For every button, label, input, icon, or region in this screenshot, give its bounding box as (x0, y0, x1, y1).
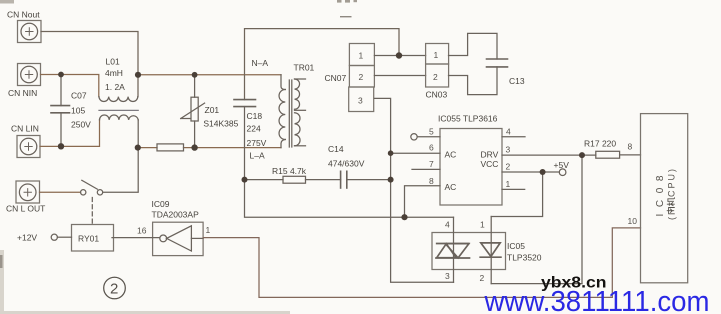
photodiode LED symbol (480, 243, 501, 257)
svg-text:AC: AC (445, 182, 457, 192)
pin 8 wire down-left (405, 186, 441, 218)
svg-text:3: 3 (358, 96, 363, 106)
wire CN L OUT to switch (40, 191, 81, 193)
scan artifact top-left (0, 0, 14, 4)
inverter IC09 TDA2003AP (112, 222, 203, 255)
svg-text:6: 6 (429, 143, 434, 153)
svg-text:4: 4 (445, 220, 450, 230)
triac symbol (436, 244, 470, 259)
dashed link switch to RY01 (91, 198, 93, 225)
pin 4 stub (502, 136, 525, 138)
svg-text:+5V: +5V (554, 160, 570, 170)
wire CN07 pin2 to CN03 (374, 75, 425, 77)
pin 6 wire (391, 152, 440, 154)
wire CN07 pin3 down (374, 98, 453, 282)
capacitor C18 with rail to CN07 (234, 29, 399, 180)
scan artifact small dash (340, 16, 352, 17)
svg-text:AC: AC (445, 150, 457, 160)
svg-text:5: 5 (429, 127, 434, 137)
varistor Z01 (181, 75, 205, 148)
scan artifact bottom edge (0, 311, 290, 314)
svg-text:Z01: Z01 (205, 105, 220, 115)
svg-text:C13: C13 (509, 76, 525, 86)
capacitor C07 (51, 75, 70, 147)
connector CN07 (349, 44, 375, 112)
inductor L01 common-mode choke (99, 97, 138, 120)
resistor R15 (245, 176, 341, 183)
svg-text:IC055 TLP3616: IC055 TLP3616 (438, 114, 498, 124)
svg-text:TLP3520: TLP3520 (507, 253, 542, 263)
svg-text:+12V: +12V (17, 233, 37, 243)
svg-text:CN07: CN07 (325, 73, 347, 83)
svg-text:8: 8 (628, 142, 633, 152)
opto triac IC05 TLP3520 (432, 217, 506, 284)
wire CN NIN to L01 (41, 75, 99, 97)
svg-text:C14: C14 (328, 144, 344, 154)
svg-text:1: 1 (206, 225, 211, 235)
svg-text:1: 1 (434, 50, 439, 60)
svg-text:4: 4 (506, 127, 511, 137)
svg-text:250V: 250V (71, 120, 91, 130)
wire +5V node to IC05 pin1 (491, 172, 542, 217)
svg-text:2: 2 (480, 273, 485, 283)
terminal +12V (51, 234, 71, 240)
wire pin8 row to C18 lead (245, 180, 454, 218)
svg-text:L01: L01 (106, 57, 120, 67)
resistor R14 (157, 144, 184, 151)
svg-text:4mH: 4mH (105, 68, 123, 78)
pin 3 wire to R17 (502, 154, 596, 156)
svg-text:2: 2 (110, 281, 118, 298)
pin 7 stub (412, 168, 440, 170)
svg-text:L–A: L–A (250, 151, 265, 161)
svg-text:CN L OUT: CN L OUT (6, 204, 45, 214)
connector CN Nout (18, 21, 42, 43)
svg-text:IC09: IC09 (152, 199, 170, 209)
pin 1 stub (502, 188, 525, 190)
capacitor C14 (341, 171, 391, 188)
wire DRV node down (581, 155, 583, 284)
scan artifact left edge (0, 250, 4, 314)
svg-text:224: 224 (247, 124, 261, 134)
svg-text:RY01: RY01 (78, 234, 99, 244)
svg-text:TR01: TR01 (294, 63, 315, 73)
svg-text:7: 7 (429, 159, 434, 169)
connector CN03 (426, 44, 449, 88)
connector CN L OUT (16, 181, 40, 203)
svg-text:105: 105 (71, 106, 85, 116)
wire IC05 pin2 row (491, 283, 582, 285)
capacitor C13 loop (449, 33, 508, 94)
svg-text:S14K385: S14K385 (203, 119, 238, 129)
svg-text:C18: C18 (247, 111, 263, 121)
svg-text:IC05: IC05 (507, 241, 525, 251)
wire CN Nout to node N-A (41, 32, 138, 97)
svg-text:1: 1 (359, 51, 364, 61)
switch contact (relay) (81, 180, 103, 195)
figure number 2 (104, 277, 126, 299)
connector CN LIN (17, 136, 40, 158)
svg-text:VCC: VCC (481, 159, 499, 169)
svg-text:8: 8 (429, 176, 434, 186)
svg-text:1: 1 (506, 179, 511, 189)
opto driver IC055 TLP3616 (440, 129, 502, 206)
svg-text:1. 2A: 1. 2A (105, 82, 125, 92)
svg-text:R15 4.7k: R15 4.7k (272, 166, 307, 176)
scan artifact cut text top-center (337, 0, 357, 3)
svg-text:CN03: CN03 (426, 90, 448, 100)
terminal +5V (559, 169, 566, 176)
svg-text:CN Nout: CN Nout (7, 10, 40, 20)
svg-text:2: 2 (506, 162, 511, 172)
svg-text:DRV: DRV (481, 150, 499, 160)
svg-text:275V: 275V (247, 138, 267, 148)
svg-text:CN NIN: CN NIN (8, 88, 37, 98)
svg-text:N–A: N–A (252, 58, 269, 68)
label (CJK CPU) rotated (667, 169, 677, 220)
svg-text:R17 220: R17 220 (584, 139, 616, 149)
svg-text:3: 3 (445, 271, 450, 281)
wire CN07 pin1 to CN03 (374, 55, 425, 57)
pin 5 wire with terminal (411, 134, 440, 140)
CPU IC08 (641, 114, 688, 283)
svg-text:3: 3 (506, 145, 511, 155)
svg-text:TDA2003AP: TDA2003AP (152, 210, 200, 220)
wire L node vertical to switch (103, 120, 139, 192)
svg-text:16: 16 (137, 226, 147, 236)
svg-text:2: 2 (359, 72, 364, 82)
svg-text:www.3811111.com: www.3811111.com (484, 286, 710, 314)
svg-text:1: 1 (480, 220, 485, 230)
resistor R17 (596, 151, 641, 158)
wire IC09 pin1 to IC08 pin10 (203, 228, 640, 298)
pin 2 wire to +5V (502, 171, 559, 173)
connector CN NIN (18, 64, 41, 86)
relay RY01 (72, 225, 114, 252)
svg-text:10: 10 (628, 216, 638, 226)
wire node N-A horizontal (138, 74, 281, 76)
svg-text:CN LIN: CN LIN (11, 124, 39, 134)
svg-text:474/630V: 474/630V (328, 159, 365, 169)
transformer TR01 (279, 75, 305, 148)
svg-text:C07: C07 (71, 91, 87, 101)
svg-text:(: ( (667, 217, 677, 220)
wire L-A row through R14 (138, 147, 281, 149)
wire CN LIN to L01 (40, 120, 100, 146)
svg-text:2: 2 (433, 72, 438, 82)
